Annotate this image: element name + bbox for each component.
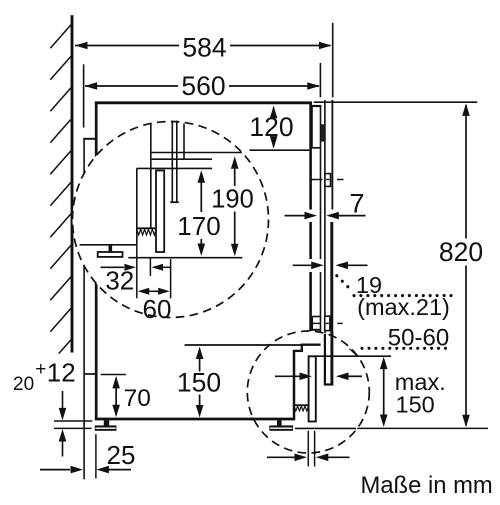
left step upper: [83, 138, 95, 140]
appliance back panel line: [83, 139, 85, 480]
svg-text:820: 820: [439, 237, 483, 267]
detail A front panel strip: [156, 171, 164, 253]
detail B floor line: [295, 427, 356, 429]
detail B furniture door bottom: [324, 332, 334, 385]
bottom extension line: [54, 420, 92, 422]
furniture door front face: [331, 100, 334, 336]
appliance top edge: [95, 101, 312, 104]
detail circle A (magnifier): [73, 122, 269, 318]
appliance bottom edge: [95, 418, 256, 421]
svg-text:70: 70: [124, 385, 151, 412]
detail B plinth recess profile: [293, 345, 321, 421]
detail B plinth panel: [309, 356, 316, 421]
detail A appliance top line H2: [137, 167, 212, 169]
detail B appliance bottom edge: [250, 418, 295, 421]
dimension 20+12: [13, 358, 76, 457]
detail A inner vertical: [183, 124, 185, 160]
svg-text:(max.21): (max.21): [357, 294, 450, 320]
svg-text:560: 560: [181, 71, 225, 101]
svg-text:584: 584: [182, 33, 226, 63]
wall hatching: [50, 25, 71, 354]
worktop line: [314, 101, 477, 103]
appliance left edge: [95, 102, 98, 421]
detail A lower shelf line H4: [80, 244, 137, 246]
detail A worktop lower line: [152, 158, 212, 160]
extension line 120 bottom: [250, 149, 310, 151]
extension line 584 right: [332, 23, 334, 98]
detail A mounting rod pair: [170, 121, 179, 203]
label 19 (max.21) with dotted leader: [335, 272, 452, 320]
label 50-60 with dotted leader: [360, 325, 449, 352]
left adjustable foot: [95, 420, 117, 431]
detail A ext line b: [149, 259, 151, 277]
svg-text:12: 12: [47, 358, 76, 388]
dimension 60: [138, 288, 172, 324]
dimension 820: [439, 103, 483, 427]
svg-text:170: 170: [177, 211, 220, 241]
extension line 560 right: [319, 63, 321, 97]
dimension 7: [285, 189, 366, 220]
dimension 150: [177, 345, 270, 418]
left step lower: [84, 373, 96, 375]
floor line right: [355, 427, 488, 429]
svg-text:7: 7: [349, 189, 364, 219]
svg-text:60: 60: [143, 294, 172, 324]
svg-text:190: 190: [211, 186, 254, 214]
svg-text:120: 120: [249, 112, 293, 142]
upper hinge block (filled): [321, 124, 325, 141]
svg-text:25: 25: [107, 440, 136, 470]
lower hinge centerline: [311, 322, 343, 324]
detail A adjustable foot: [98, 245, 123, 257]
extension line 560 left: [83, 64, 85, 127]
lower hinge bracket: [325, 316, 330, 330]
detail A worktop underside line: [151, 152, 242, 154]
svg-text:150: 150: [177, 368, 221, 398]
leader line 50-60: [350, 349, 358, 356]
svg-text:20: 20: [13, 374, 34, 395]
plinth recess arrows: [275, 373, 362, 381]
upper hinge centerline: [311, 179, 344, 181]
dimension 25: [40, 434, 135, 478]
dimension 584 (line+arrows+label): [75, 33, 332, 63]
appliance right edge: [309, 102, 312, 345]
appliance front line: [320, 105, 322, 345]
detail A base line H3: [128, 257, 242, 259]
dimension 70: [101, 375, 151, 418]
dimension 120: [249, 106, 293, 149]
detail A worktop side panel: [150, 123, 152, 228]
detail A left panel line: [136, 168, 138, 245]
detail A serrated edge: [137, 228, 156, 235]
furniture door rear face: [324, 100, 326, 336]
dimension max. 150: [380, 357, 446, 427]
svg-text:Maße in mm: Maße in mm: [361, 472, 493, 499]
dimension 190: [211, 156, 254, 256]
wall face line: [71, 15, 74, 352]
detail B line 150-level: [268, 344, 301, 346]
right adjustable foot: [269, 420, 293, 431]
floor line left: [54, 427, 92, 429]
detail circle B (magnifier): [247, 331, 369, 453]
svg-text:+: +: [35, 359, 46, 380]
plinth top level line: [316, 355, 391, 357]
svg-text:32: 32: [105, 266, 134, 296]
dimension 19 arrows: [293, 262, 368, 270]
plinth panel thickness dimension: [267, 431, 350, 467]
svg-text:150: 150: [396, 392, 435, 418]
detail A ext line a: [136, 245, 138, 298]
detail B serrated edge: [294, 405, 309, 411]
upper hinge mounting box: [311, 106, 321, 148]
detail A ext line c: [170, 259, 172, 298]
dimension 560 (line+arrows+label): [85, 71, 320, 101]
lower hinge mounting box: [309, 317, 320, 330]
dimension 170: [177, 170, 220, 256]
upper hinge bracket: [325, 174, 331, 187]
dimension 32: [101, 264, 172, 296]
